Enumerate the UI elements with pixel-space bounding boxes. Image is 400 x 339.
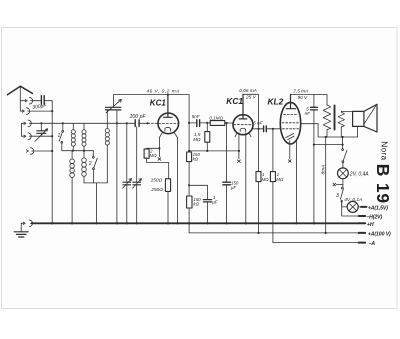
tube V2 grid	[234, 124, 253, 126]
wire jack5 to common	[32, 150, 52, 152]
tube V3 grids	[284, 114, 298, 116]
svg-text:KL2: KL2	[268, 96, 284, 106]
coil L1	[72, 123, 74, 130]
svg-text:kΩ: kΩ	[193, 202, 199, 207]
svg-text:150Ω: 150Ω	[151, 177, 163, 183]
capacitor 1uF	[189, 185, 207, 199]
jack J3-J4 bracket	[22, 123, 25, 136]
capacitor 5nF tone	[313, 94, 315, 107]
resistor 1M grid b	[272, 129, 274, 172]
svg-text:250Ω: 250Ω	[150, 187, 163, 193]
wire antenna to jack1	[20, 100, 25, 102]
tube V3 anode	[286, 94, 295, 108]
capacitor 300pF	[41, 96, 44, 105]
jack J1	[25, 97, 32, 104]
wire secondary to speaker	[341, 110, 352, 113]
svg-text:7,5 mA: 7,5 mA	[293, 89, 308, 94]
wire jack2 to common	[28, 110, 53, 112]
svg-text:Nora: Nora	[380, 141, 390, 160]
resistor 150k lower	[187, 196, 192, 208]
jack J4	[24, 133, 31, 140]
svg-text:5nF: 5nF	[192, 114, 201, 119]
tube V1 base legs	[159, 133, 162, 149]
wire 300pF to node	[45, 100, 52, 102]
tube V1 cathode	[165, 127, 171, 131]
resistor 150k upper	[187, 152, 192, 162]
tube V1 anode	[164, 95, 172, 118]
wire jack1 to C 300pF	[31, 100, 41, 102]
anode feed vertical	[188, 95, 190, 152]
svg-text:100 pF: 100 pF	[130, 114, 147, 120]
tube V2 anode	[239, 94, 247, 119]
tube V2 base legs	[235, 133, 239, 151]
node dots coil junctions	[72, 150, 74, 152]
supply rail 46V	[114, 94, 190, 96]
svg-text:KC1: KC1	[226, 96, 243, 106]
svg-text:25 V: 25 V	[245, 95, 257, 100]
antenna	[7, 86, 32, 95]
wire lamp to tap	[342, 179, 344, 187]
jack J3	[24, 120, 31, 127]
switch 2	[92, 151, 94, 157]
trimmer capacitor feedback	[113, 95, 115, 107]
ground bus	[32, 222, 359, 224]
supply rail 90V	[291, 93, 327, 95]
resistor 1.5M	[206, 123, 208, 132]
coil L2	[83, 123, 85, 130]
svg-text:−A: −A	[369, 241, 376, 247]
wire to +A100	[325, 137, 327, 233]
coil L4	[83, 151, 85, 158]
svg-text:µF: µF	[212, 200, 218, 205]
svg-text:0,1MΩ: 0,1MΩ	[209, 116, 223, 121]
svg-text:MΩ: MΩ	[262, 177, 270, 182]
svg-text:2: 2	[88, 161, 92, 167]
tube V3 cathode leg	[288, 141, 291, 163]
tuning capacitor gang 2	[136, 127, 138, 224]
node x-mark	[158, 148, 161, 160]
svg-text:1: 1	[58, 133, 61, 139]
line -A	[273, 242, 359, 244]
wire screen feed	[301, 124, 358, 137]
svg-text:µF: µF	[231, 185, 237, 190]
wire jack2 lead	[20, 110, 22, 112]
wire coil bottom link	[84, 182, 107, 184]
svg-text:+H: +H	[367, 222, 374, 228]
wire grid line from jack3	[29, 122, 135, 124]
tube V1 KC1 envelope	[158, 113, 179, 134]
node x-mark	[238, 151, 241, 163]
svg-text:2V, 0,4A: 2V, 0,4A	[349, 171, 369, 177]
ground jack	[21, 222, 23, 224]
resistor 150/250 ohm	[165, 179, 170, 192]
svg-text:46 V, 0,2 mA: 46 V, 0,2 mA	[147, 89, 180, 95]
wire 5nF ground drop	[313, 145, 315, 224]
svg-text:+A(100 V): +A(100 V)	[368, 232, 391, 238]
lamp 4V 0.1A	[347, 201, 358, 212]
tube V3 leg to bus	[295, 140, 297, 224]
wire to lamp 4V	[342, 200, 348, 207]
switch 3	[341, 187, 343, 189]
svg-text:3: 3	[336, 193, 339, 199]
wire to ground bus	[96, 183, 98, 223]
svg-text:B 19: B 19	[373, 164, 393, 204]
wire filament chain	[314, 144, 343, 146]
svg-text:MΩ: MΩ	[276, 177, 284, 182]
switch main	[342, 145, 344, 149]
speaker	[353, 111, 364, 126]
terminal +A 1.5V	[358, 206, 361, 208]
tube V3 cathode	[286, 134, 295, 140]
resistor output choke	[326, 94, 328, 105]
wire antenna stem	[19, 86, 21, 111]
svg-text:MΩ: MΩ	[193, 137, 201, 142]
svg-text:MΩ: MΩ	[150, 153, 158, 158]
svg-text:kΩ: kΩ	[193, 157, 199, 162]
svg-text:0,06 mA: 0,06 mA	[239, 88, 256, 93]
ground symbol	[20, 223, 22, 231]
lamp 2V 0.4A	[338, 168, 349, 179]
line +A100V	[189, 232, 359, 234]
transformer secondary	[338, 112, 344, 127]
wire -H	[342, 201, 359, 216]
svg-text:5 nF: 5 nF	[253, 120, 263, 125]
svg-text:4V, 0,1A: 4V, 0,1A	[344, 197, 362, 203]
capacitor 100pF	[135, 120, 139, 127]
svg-text:90 V: 90 V	[298, 95, 309, 100]
capacitor 5nF to output	[264, 126, 267, 132]
trimmer capacitor antenna	[40, 123, 42, 136]
capacitor 5nF coupling	[189, 122, 196, 124]
tube V3 KL2 envelope	[280, 102, 300, 144]
svg-text:KC1: KC1	[150, 99, 167, 108]
resistor 0.1M	[210, 121, 225, 126]
switch 1	[62, 123, 64, 130]
node dot	[51, 110, 53, 112]
capacitor 150uF cathode	[226, 123, 228, 182]
svg-text:8mA: 8mA	[321, 165, 327, 175]
tube V2 cathode	[240, 128, 245, 131]
svg-text:+A(1,5V): +A(1,5V)	[368, 205, 388, 211]
resistor 1M grid a	[258, 129, 260, 172]
coil L3	[71, 151, 73, 159]
tube V2 KC1 envelope	[233, 115, 253, 135]
coil L5	[105, 129, 109, 133]
jack J2	[22, 108, 29, 115]
jack J5	[26, 148, 33, 155]
wire bias line	[189, 150, 239, 152]
wire jack4 to common	[29, 135, 52, 137]
tube V1 grid	[159, 122, 178, 124]
node dot	[62, 122, 64, 124]
transformer core	[334, 106, 336, 130]
bus junction dots	[51, 222, 53, 224]
tuning capacitor gang 1	[126, 123, 128, 223]
wire antenna common vertical	[51, 101, 53, 224]
resistor 2M	[147, 147, 160, 150]
wire plate node	[252, 128, 263, 130]
supply rail 25V	[243, 94, 259, 129]
wire 100pF to tube grid	[139, 122, 147, 124]
svg-text:−H(2V): −H(2V)	[366, 214, 382, 220]
